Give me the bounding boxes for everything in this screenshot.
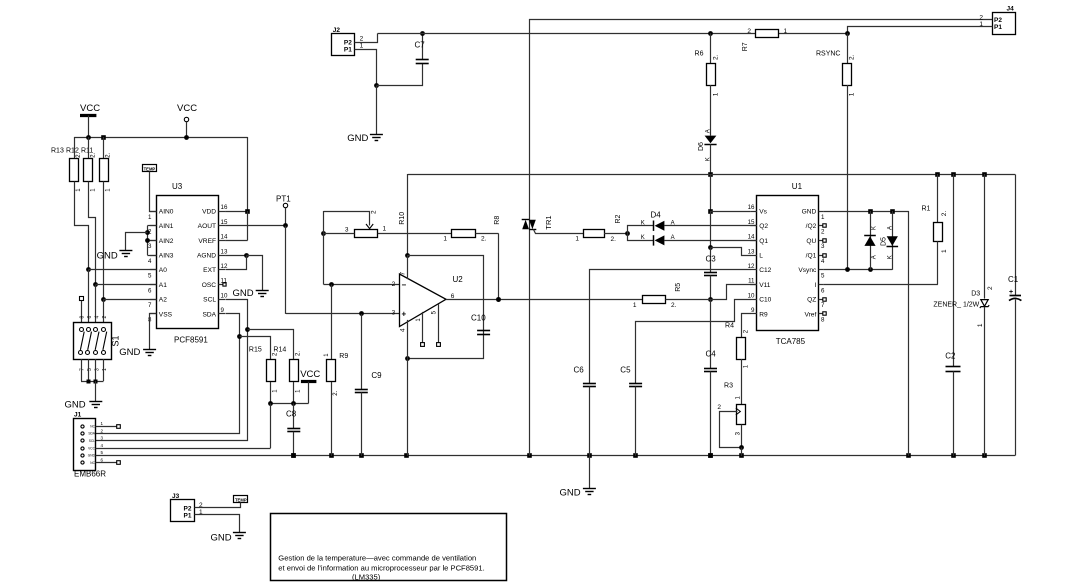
svg-text:OSC: OSC: [202, 282, 217, 289]
svg-text:1: 1: [443, 236, 447, 243]
svg-text:VREF: VREF: [198, 238, 216, 245]
svg-text:2: 2: [371, 210, 378, 214]
svg-text:6: 6: [821, 287, 825, 294]
svg-text:GND: GND: [233, 288, 254, 299]
svg-text:TCA785: TCA785: [776, 337, 806, 346]
svg-text:R15: R15: [249, 347, 262, 354]
svg-text:A: A: [872, 255, 878, 259]
svg-text:Q2: Q2: [759, 223, 768, 230]
svg-text:J1: J1: [74, 412, 82, 419]
svg-text:16: 16: [748, 204, 755, 211]
svg-text:P1: P1: [184, 513, 192, 520]
svg-text:A: A: [705, 129, 711, 133]
svg-text:J2: J2: [333, 27, 341, 34]
svg-text:C10: C10: [471, 313, 486, 322]
svg-text:Q1: Q1: [759, 238, 768, 245]
svg-text:VCC: VCC: [88, 446, 95, 450]
svg-text:8: 8: [80, 316, 86, 319]
svg-text:11: 11: [748, 278, 755, 285]
svg-text:P2: P2: [994, 17, 1002, 24]
svg-text:EXT: EXT: [203, 267, 216, 274]
svg-text:C8: C8: [286, 410, 297, 419]
svg-text:GND: GND: [211, 533, 232, 544]
svg-text:7: 7: [148, 302, 152, 309]
svg-text:L: L: [759, 253, 763, 260]
svg-text:+: +: [402, 310, 407, 319]
svg-text:Gestion de la temperature—avec: Gestion de la temperature—avec commande …: [278, 554, 476, 563]
svg-text:TR1: TR1: [544, 215, 553, 229]
svg-text:2.: 2.: [76, 152, 82, 157]
svg-text:D3: D3: [971, 290, 980, 297]
svg-text:2.: 2.: [481, 236, 487, 243]
svg-text:NC: NC: [90, 424, 95, 428]
svg-text:/Q1: /Q1: [806, 253, 817, 260]
svg-text:16: 16: [221, 204, 228, 211]
svg-text:R10: R10: [399, 212, 406, 225]
svg-text:2.: 2.: [848, 54, 855, 60]
svg-text:SDA: SDA: [88, 432, 95, 436]
svg-text:C3: C3: [706, 255, 717, 264]
svg-text:R4: R4: [725, 323, 734, 330]
svg-text:GND: GND: [65, 400, 86, 411]
svg-text:1: 1: [712, 92, 719, 96]
svg-text:1: 1: [633, 302, 637, 309]
svg-text:GND: GND: [97, 250, 118, 261]
svg-text:C5: C5: [620, 366, 631, 375]
svg-text:C12: C12: [759, 267, 771, 274]
svg-text:2: 2: [102, 316, 108, 319]
svg-text:R3: R3: [724, 383, 733, 390]
svg-text:4: 4: [821, 258, 825, 265]
svg-text:QZ: QZ: [807, 297, 816, 304]
svg-text:C10: C10: [759, 297, 771, 304]
svg-text:1: 1: [784, 28, 788, 35]
svg-text:3: 3: [392, 310, 396, 317]
svg-text:2.: 2.: [671, 302, 677, 309]
svg-text:AOUT: AOUT: [198, 223, 216, 230]
svg-text:VCC: VCC: [80, 103, 100, 114]
svg-text:(LM335): (LM335): [352, 573, 381, 582]
svg-text:4: 4: [399, 328, 406, 332]
svg-text:8: 8: [821, 317, 825, 324]
svg-text:RSYNC: RSYNC: [816, 50, 841, 57]
svg-text:5: 5: [821, 273, 825, 280]
svg-text:AIN3: AIN3: [159, 253, 174, 260]
svg-text:AGND: AGND: [197, 253, 216, 260]
svg-text:GND: GND: [347, 133, 368, 144]
svg-text:C1: C1: [1008, 275, 1019, 284]
svg-text:TEMP: TEMP: [144, 167, 156, 172]
svg-text:7: 7: [80, 368, 86, 371]
svg-text:2.: 2.: [296, 351, 302, 356]
svg-text:PCF8591: PCF8591: [174, 335, 208, 344]
svg-text:14: 14: [221, 234, 228, 241]
svg-text:D6: D6: [698, 142, 705, 151]
svg-text:U3: U3: [172, 182, 183, 191]
svg-text:QU: QU: [806, 238, 816, 245]
svg-text:1: 1: [821, 214, 825, 221]
svg-text:R6: R6: [695, 50, 704, 57]
svg-text:A2: A2: [159, 297, 167, 304]
svg-text:U2: U2: [453, 275, 464, 284]
svg-text:AIN1: AIN1: [159, 223, 174, 230]
svg-text:2.: 2.: [611, 236, 617, 243]
svg-text:13: 13: [221, 248, 228, 255]
svg-text:C6: C6: [574, 366, 585, 375]
svg-text:A0: A0: [159, 267, 167, 274]
svg-text:VSS: VSS: [159, 311, 173, 318]
svg-text:2: 2: [747, 28, 751, 35]
svg-text:2.: 2.: [333, 390, 339, 395]
svg-text:7: 7: [821, 302, 825, 309]
svg-text:2.: 2.: [106, 152, 112, 157]
svg-text:2: 2: [821, 229, 825, 236]
svg-text:A1: A1: [159, 282, 167, 289]
svg-text:VDD: VDD: [202, 208, 216, 215]
svg-text:R1: R1: [922, 206, 931, 213]
svg-text:GND: GND: [560, 488, 581, 499]
svg-text:2: 2: [148, 229, 152, 236]
svg-text:SDA: SDA: [202, 311, 216, 318]
svg-text:6: 6: [148, 287, 152, 294]
svg-text:C2: C2: [945, 352, 956, 361]
svg-text:A: A: [671, 220, 675, 226]
svg-text:1: 1: [148, 214, 152, 221]
svg-text:SCL: SCL: [203, 297, 216, 304]
svg-text:1: 1: [575, 236, 579, 243]
svg-text:P2: P2: [184, 506, 192, 513]
svg-text:Vs: Vs: [759, 208, 767, 215]
svg-text:I: I: [814, 282, 816, 289]
svg-text:Vref: Vref: [804, 311, 816, 318]
svg-text:R14: R14: [273, 347, 286, 354]
svg-text:C7: C7: [415, 41, 426, 50]
svg-text:K: K: [887, 255, 893, 259]
svg-text:7: 7: [399, 272, 406, 276]
svg-text:3: 3: [821, 243, 825, 250]
svg-text:AIN0: AIN0: [159, 208, 174, 215]
svg-text:R13: R13: [51, 148, 64, 155]
svg-text:2.: 2.: [941, 211, 948, 217]
svg-text:10: 10: [221, 292, 228, 299]
svg-text:A: A: [671, 235, 675, 241]
svg-text:−: −: [402, 280, 407, 289]
svg-text:S1: S1: [111, 335, 121, 346]
svg-text:15: 15: [221, 219, 228, 226]
svg-text:13: 13: [748, 248, 755, 255]
svg-text:+: +: [1009, 289, 1013, 296]
svg-text:P1: P1: [344, 46, 352, 53]
svg-text:2: 2: [392, 281, 396, 288]
svg-text:R7: R7: [742, 42, 749, 51]
svg-text:PT1: PT1: [276, 195, 291, 204]
svg-text:AIN2: AIN2: [159, 238, 174, 245]
svg-text:5: 5: [148, 273, 152, 280]
svg-text:R8: R8: [494, 216, 501, 225]
svg-text:U1: U1: [792, 182, 803, 191]
svg-text:2.: 2.: [90, 152, 96, 157]
svg-text:ZENER_ 1/2W: ZENER_ 1/2W: [933, 301, 979, 308]
svg-text:4: 4: [95, 316, 101, 319]
svg-text:R5: R5: [675, 283, 682, 292]
svg-text:6: 6: [87, 316, 93, 319]
svg-text:V11: V11: [759, 282, 771, 289]
svg-text:/Q2: /Q2: [806, 223, 817, 230]
svg-text:3: 3: [345, 227, 349, 234]
svg-text:NC: NC: [90, 461, 95, 465]
svg-text:Vsync: Vsync: [798, 267, 817, 274]
svg-text:C4: C4: [706, 350, 717, 359]
svg-text:2: 2: [717, 404, 721, 411]
svg-text:R9: R9: [339, 353, 348, 360]
svg-text:K: K: [872, 226, 878, 230]
svg-text:GND: GND: [88, 454, 96, 458]
svg-text:K: K: [641, 220, 645, 226]
svg-text:1: 1: [977, 323, 984, 327]
svg-text:4: 4: [148, 258, 152, 265]
svg-text:1: 1: [941, 249, 948, 253]
svg-text:1: 1: [383, 226, 387, 233]
svg-text:2: 2: [987, 286, 994, 290]
svg-text:K: K: [641, 235, 645, 241]
svg-text:TEMP: TEMP: [235, 498, 247, 503]
svg-text:3: 3: [148, 243, 152, 250]
svg-text:EMB66R: EMB66R: [74, 470, 106, 479]
svg-text:D4: D4: [651, 210, 662, 219]
svg-text:P1: P1: [994, 24, 1002, 31]
svg-text:C9: C9: [371, 371, 382, 380]
svg-text:2: 2: [360, 36, 364, 43]
svg-text:10: 10: [748, 292, 755, 299]
svg-text:et envoi de l’information au m: et envoi de l’information au microproces…: [278, 563, 484, 572]
svg-text:R9: R9: [759, 311, 768, 318]
svg-text:1: 1: [360, 43, 364, 50]
svg-text:15: 15: [748, 219, 755, 226]
svg-text:VCC: VCC: [177, 103, 197, 114]
svg-text:J4: J4: [1007, 6, 1015, 13]
svg-text:R2: R2: [615, 214, 622, 223]
svg-text:P2: P2: [344, 39, 352, 46]
svg-text:GND: GND: [119, 347, 140, 358]
svg-text:D5: D5: [881, 237, 888, 246]
svg-text:14: 14: [748, 234, 755, 241]
svg-text:1: 1: [848, 92, 855, 96]
svg-text:VCC: VCC: [300, 369, 320, 380]
svg-text:A: A: [887, 226, 893, 230]
svg-text:SCL: SCL: [89, 439, 95, 443]
svg-text:GND: GND: [802, 208, 817, 215]
svg-text:2.: 2.: [712, 54, 719, 60]
